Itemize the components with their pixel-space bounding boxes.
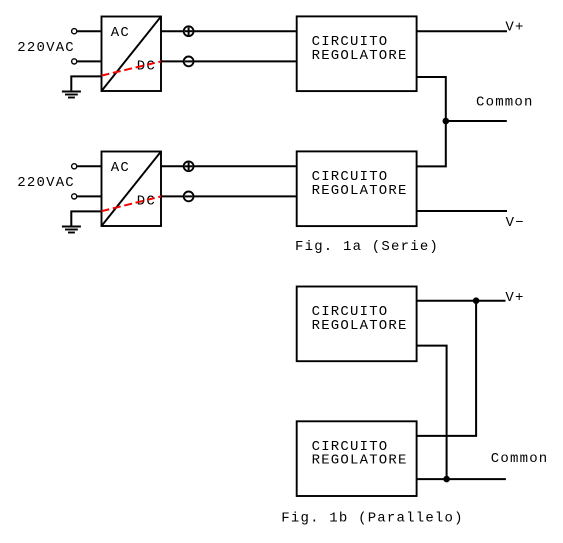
- regulator U2 box: [297, 151, 417, 226]
- wire U2 to V-: [417, 210, 507, 212]
- wire U4 upper to V+ rail: [417, 301, 477, 436]
- ground symbol GND2: [62, 227, 81, 233]
- PS2 red dashed separator: [102, 196, 163, 211]
- svg-text:V+: V+: [505, 290, 524, 306]
- AC/DC converter PS2 diagonal: [102, 152, 162, 227]
- wire PS1 out+: [161, 30, 183, 32]
- AC/DC converter PS1 body: [102, 17, 162, 92]
- wire minus to regulator U2: [194, 195, 296, 197]
- svg-text:AC: AC: [111, 160, 130, 176]
- wire U1 common link to U2: [417, 77, 446, 166]
- plus terminal symbol (PS2): [184, 161, 194, 171]
- wire U3 to V+ (Fig 1b): [417, 300, 506, 302]
- AC/DC converter PS2 body: [102, 152, 162, 227]
- wire Common stub (Fig 1a): [446, 120, 507, 122]
- plus terminal symbol (PS1): [184, 26, 194, 36]
- svg-text:Common: Common: [476, 95, 534, 111]
- regulator U1 box: [297, 16, 417, 91]
- svg-text:REGOLATORE: REGOLATORE: [312, 48, 408, 64]
- wire PS2 to ground: [71, 211, 100, 226]
- ground symbol GND1: [62, 92, 81, 98]
- input terminal circle (PS2 line): [72, 164, 77, 169]
- svg-text:220VAC: 220VAC: [17, 175, 75, 191]
- PS1 red dashed separator: [102, 61, 163, 75]
- minus terminal symbol (PS2): [184, 192, 194, 202]
- regulator U3 box: [297, 287, 417, 362]
- junction node (Common, Fig 1a): [443, 118, 450, 125]
- svg-text:AC: AC: [111, 25, 130, 41]
- junction node (Common, Fig 1b): [443, 476, 450, 483]
- wire minus to regulator U1: [194, 60, 296, 62]
- wire terminal to PS2 pin2: [77, 195, 100, 197]
- wire U1 to V+: [417, 30, 507, 32]
- svg-text:V−: V−: [506, 215, 525, 231]
- wire terminal to PS1 pin2: [77, 60, 100, 62]
- wire PS2 out+: [161, 165, 183, 167]
- svg-text:Common: Common: [491, 451, 549, 467]
- svg-text:220VAC: 220VAC: [17, 40, 75, 56]
- svg-text:REGOLATORE: REGOLATORE: [312, 453, 408, 469]
- input terminal circle (PS1 neutral): [72, 59, 77, 64]
- svg-text:V+: V+: [505, 20, 524, 36]
- junction node (V+, Fig 1b): [473, 297, 480, 304]
- wire terminal to PS2 pin1: [77, 165, 100, 167]
- wire U3 lower to common rail: [417, 346, 447, 480]
- wire plus to regulator U1: [194, 30, 296, 32]
- minus terminal symbol (PS1): [184, 57, 194, 67]
- wire terminal to PS1 pin1: [77, 30, 100, 32]
- wire PS2 out-: [161, 195, 183, 197]
- wire plus to regulator U2: [194, 165, 296, 167]
- regulator U4 box: [297, 421, 417, 496]
- wire PS1 to ground: [71, 76, 100, 91]
- input terminal circle (PS2 neutral): [72, 194, 77, 199]
- AC/DC converter PS1 diagonal: [102, 17, 162, 92]
- input terminal circle (PS1 line): [72, 29, 77, 34]
- svg-text:Fig. 1b (Parallelo): Fig. 1b (Parallelo): [281, 511, 463, 527]
- wire PS1 out-: [161, 60, 183, 62]
- wire U4 to Common (Fig 1b): [417, 478, 506, 480]
- svg-text:Fig. 1a (Serie): Fig. 1a (Serie): [295, 239, 439, 255]
- svg-text:REGOLATORE: REGOLATORE: [312, 183, 408, 199]
- svg-text:REGOLATORE: REGOLATORE: [312, 318, 408, 334]
